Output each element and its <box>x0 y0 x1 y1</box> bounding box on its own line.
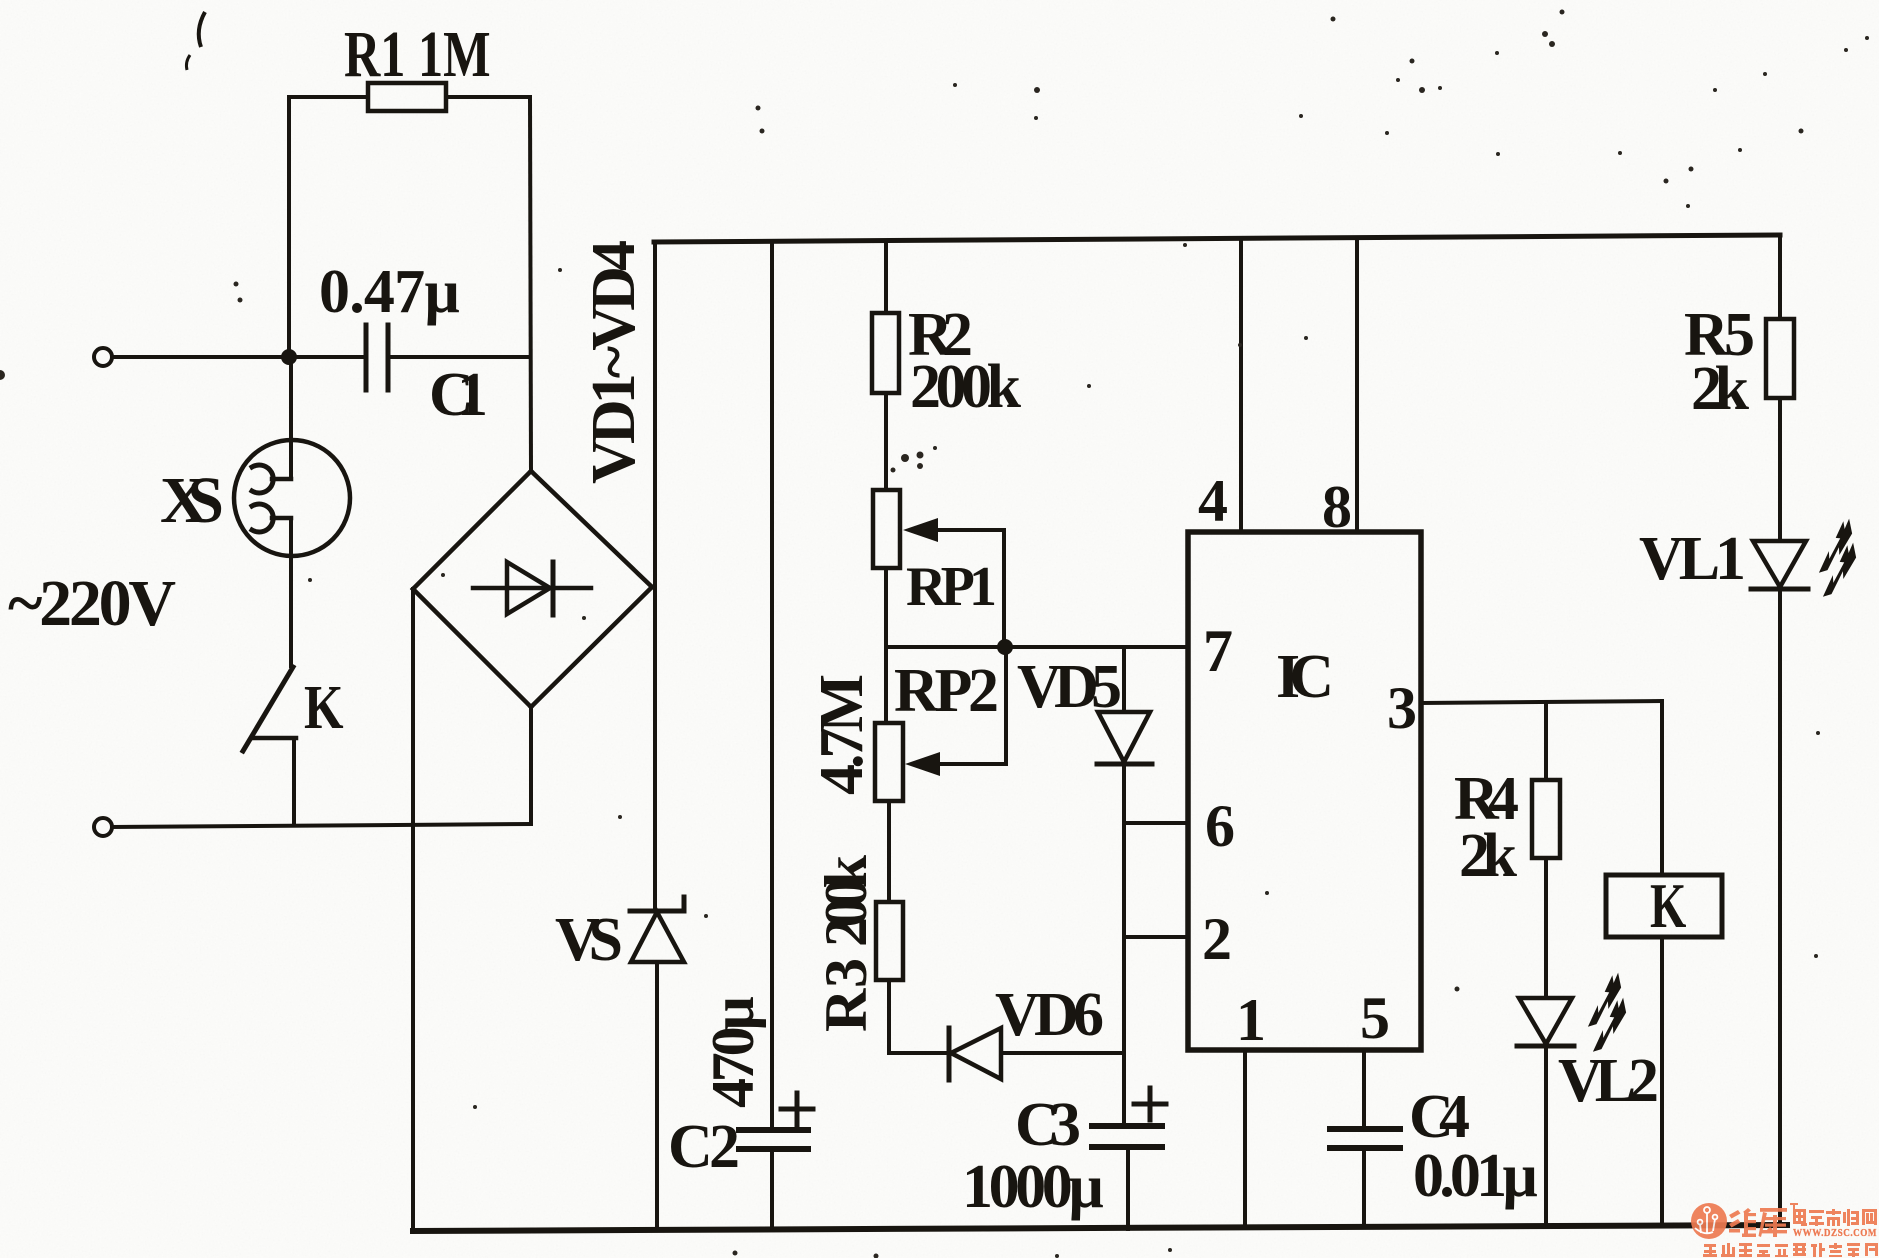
svg-text:1000µ: 1000µ <box>962 1153 1104 1221</box>
node junction A <box>281 349 297 365</box>
resistor R3 <box>876 902 903 980</box>
bottom rail <box>413 1225 1787 1231</box>
svg-text:VD1~VD4: VD1~VD4 <box>580 240 648 484</box>
wire node row y647 <box>886 645 1188 649</box>
pin6 stub wire <box>1124 821 1188 825</box>
pin 4 wire <box>1239 240 1243 532</box>
relay K box <box>1606 875 1722 937</box>
small chinese line 2 <box>1703 1243 1878 1257</box>
pin2 stub wire <box>1124 935 1188 939</box>
svg-text:VL1: VL1 <box>1639 525 1746 593</box>
svg-text:1: 1 <box>1236 987 1266 1053</box>
pin 1 wire <box>1243 1050 1247 1228</box>
op-amp U1 IC box <box>1188 532 1421 1050</box>
LED VL2 arrows <box>1574 971 1639 1055</box>
LED VL1 <box>1753 541 1806 587</box>
wire junction down to socket <box>289 357 293 479</box>
zener VS <box>630 909 684 914</box>
wire right vertical to bridge top <box>530 97 531 471</box>
resistor R5 <box>1778 235 1782 319</box>
socket XS <box>234 440 350 556</box>
resistor R4 <box>1544 702 1548 780</box>
RP1 wiper arrow <box>1002 530 1006 647</box>
capacitor C3 <box>1092 1123 1162 1129</box>
scan stray marks <box>186 12 205 70</box>
svg-text:R1 1M: R1 1M <box>344 18 491 91</box>
bridge rectifier VD1~VD4 <box>413 471 531 589</box>
small chinese line 1: dian zi shi chang wang <box>1793 1209 1877 1226</box>
svg-text:4: 4 <box>1198 468 1228 534</box>
capacitor C2 branch <box>770 243 774 1128</box>
LED VL2 <box>1519 998 1572 1044</box>
svg-text:WWW.DZSC.COM: WWW.DZSC.COM <box>1793 1228 1877 1239</box>
capacitor C4 <box>1330 1126 1400 1132</box>
svg-text:VD5: VD5 <box>1017 653 1122 721</box>
potentiometer RP1 <box>873 490 900 568</box>
svg-text:~220V: ~220V <box>8 567 176 640</box>
pin 3 wire <box>1421 701 1662 703</box>
diode VD5 <box>1122 647 1126 712</box>
svg-text:0.01µ: 0.01µ <box>1413 1142 1538 1210</box>
watermark <box>1691 1203 1878 1257</box>
svg-text:C3: C3 <box>1015 1091 1081 1159</box>
svg-text:6: 6 <box>1205 793 1235 859</box>
node dot wiper junction <box>997 639 1013 655</box>
svg-text:K: K <box>1650 871 1687 942</box>
svg-text:RP2: RP2 <box>894 657 999 725</box>
wire R1 loop left vertical <box>287 97 291 357</box>
svg-text:C4: C4 <box>1409 1083 1470 1151</box>
resistor R1 <box>368 83 446 111</box>
svg-text:5: 5 <box>1360 985 1390 1051</box>
svg-text:C1: C1 <box>429 361 488 429</box>
svg-text:2: 2 <box>1202 906 1232 972</box>
char wei <box>1729 1208 1756 1237</box>
svg-text:0.47µ: 0.47µ <box>319 258 460 326</box>
capacitor C1 <box>364 325 369 390</box>
left bus wire <box>653 243 657 911</box>
pin 5 wire <box>1362 1050 1366 1129</box>
pin 8 wire <box>1355 239 1359 532</box>
terminal bottom-left <box>94 818 112 836</box>
wire C1 to vertical <box>390 355 530 359</box>
wire junction to C1 <box>289 355 363 359</box>
svg-text:470µ: 470µ <box>700 996 766 1108</box>
wire bottom terminal <box>112 824 531 827</box>
svg-text:3: 3 <box>1387 675 1417 741</box>
diode VD6 <box>947 1028 952 1080</box>
switch K <box>243 667 293 751</box>
svg-text:7: 7 <box>1203 618 1233 684</box>
svg-text:2k: 2k <box>1691 355 1750 423</box>
svg-text:VD6: VD6 <box>995 981 1104 1049</box>
wire R1 top left <box>289 95 368 99</box>
potentiometer RP2 <box>875 723 903 801</box>
RP2 wiper arrow <box>1004 647 1008 764</box>
svg-text:200k: 200k <box>910 353 1022 421</box>
svg-text:XS: XS <box>160 464 224 537</box>
top rail <box>654 235 1780 242</box>
LED VL1 arrows <box>1805 517 1869 600</box>
wire top terminal to junction <box>112 355 289 359</box>
TM <box>1790 1203 1798 1205</box>
svg-text:IC: IC <box>1276 643 1334 711</box>
wire R1 top right <box>446 95 530 99</box>
resistor chain: R2 <box>884 243 888 313</box>
svg-text:VL2: VL2 <box>1558 1047 1659 1115</box>
svg-text:200k: 200k <box>813 854 879 947</box>
svg-text:2k: 2k <box>1459 822 1518 890</box>
svg-text:4.7M: 4.7M <box>808 674 876 795</box>
wire up to bridge bottom <box>529 707 533 824</box>
char ku <box>1759 1208 1788 1237</box>
svg-text:VS: VS <box>555 906 623 974</box>
terminal top-left <box>94 348 112 366</box>
svg-text:C2: C2 <box>668 1113 740 1181</box>
wire socket to switch <box>289 518 293 666</box>
wire bridge left vertex down to bottom rail <box>411 589 415 1231</box>
svg-text:RP1: RP1 <box>906 556 997 618</box>
svg-text:8: 8 <box>1322 474 1352 540</box>
svg-text:K: K <box>304 673 344 742</box>
svg-text:R3: R3 <box>813 958 879 1032</box>
